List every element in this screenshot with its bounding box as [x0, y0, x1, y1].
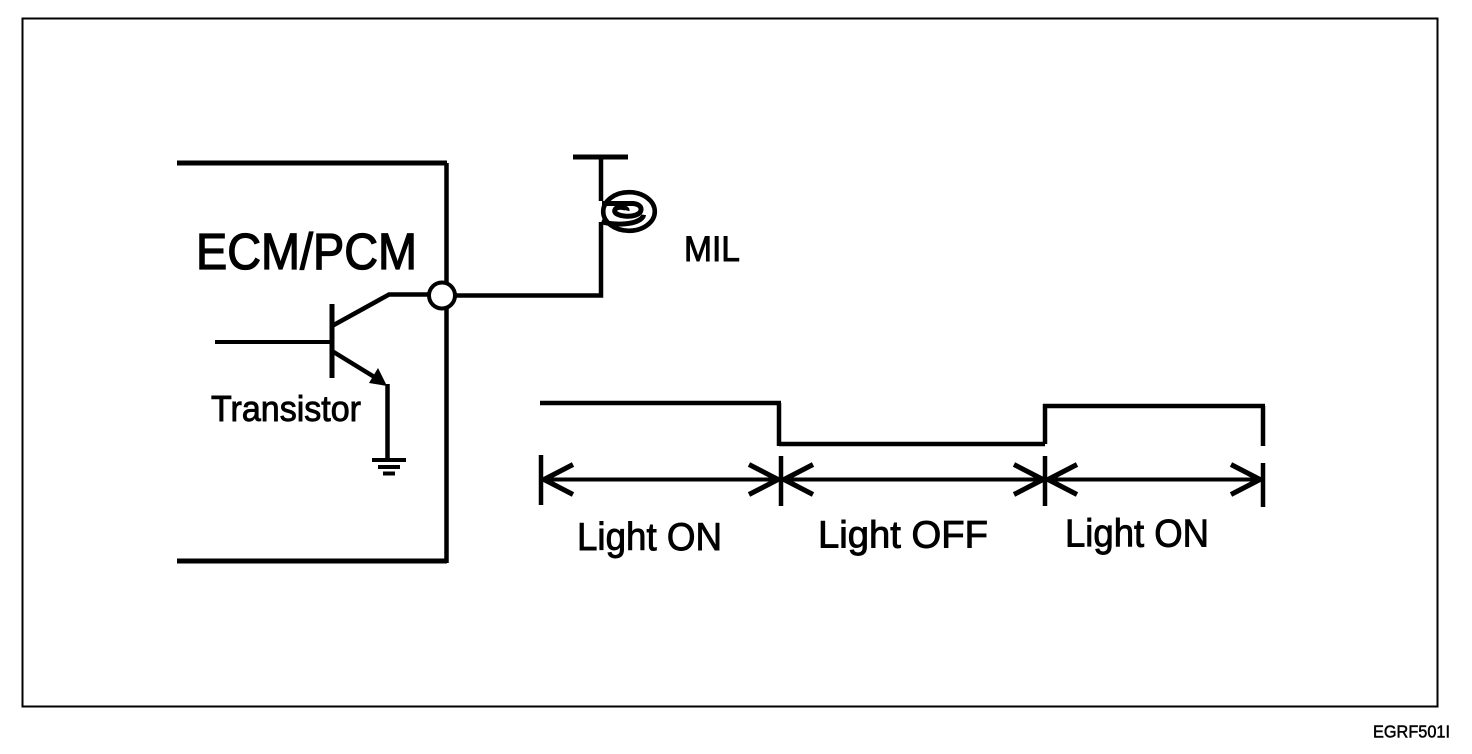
waveform falling edge 1 [777, 403, 782, 446]
power supply bar [573, 155, 628, 160]
ECM/PCM box right edge [444, 163, 449, 563]
dimension tick middle 2 [1043, 456, 1048, 506]
waveform high segment 1 [540, 401, 781, 406]
transistor Q1 collector lead [332, 295, 430, 327]
arrowhead right of span 2 [1014, 465, 1043, 495]
arrowhead right of span 3 [1231, 465, 1260, 495]
transistor Q1 base bar [330, 304, 335, 378]
svg-text:Light ON: Light ON [577, 516, 722, 559]
arrowhead left of span 3 [1048, 465, 1077, 495]
svg-text:ECM/PCM: ECM/PCM [196, 223, 417, 280]
ECM/PCM box bottom edge [177, 559, 447, 564]
ECM/PCM box top edge [177, 161, 447, 166]
wire node to MIL lamp [455, 222, 601, 296]
ground [372, 460, 406, 474]
dimension arrow line span 2 [783, 478, 1045, 482]
arrowhead right of span 1 [749, 465, 778, 495]
transistor Q1 base lead wire [215, 340, 332, 344]
dimension arrow line span 3 [1047, 478, 1261, 482]
dimension arrow line span 1 [543, 478, 779, 482]
dimension tick middle 1 [779, 456, 784, 506]
waveform falling edge 2 [1261, 406, 1266, 446]
wire lamp to power bar [599, 157, 604, 201]
waveform low segment [779, 442, 1045, 447]
dimension tick left [539, 455, 544, 505]
svg-text:Light ON: Light ON [1065, 513, 1209, 556]
waveform high segment 2 [1043, 404, 1265, 409]
node junction circle [429, 283, 455, 309]
arrowhead left of span 2 [784, 465, 813, 495]
lamp MIL bulb [602, 192, 655, 231]
svg-text:MIL: MIL [684, 230, 740, 269]
svg-text:Light OFF: Light OFF [818, 515, 988, 557]
arrowhead left of span 1 [544, 465, 573, 495]
transistor Q1 emitter lead with arrowhead [332, 351, 376, 378]
emitter wire to ground [385, 384, 390, 460]
svg-text:EGRF501I: EGRF501I [1373, 722, 1450, 742]
waveform rising edge [1043, 404, 1048, 444]
svg-text:Transistor: Transistor [211, 388, 361, 429]
dimension tick right [1261, 463, 1266, 507]
